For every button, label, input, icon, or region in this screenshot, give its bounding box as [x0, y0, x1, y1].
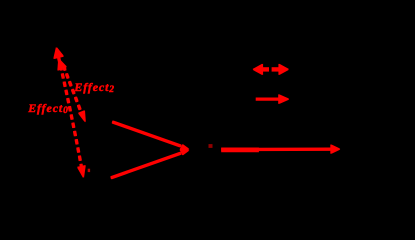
label Effect0	[28, 102, 68, 114]
solid arrow S2 (lower converging arrow)	[111, 150, 189, 178]
solid arrow S1 (upper converging arrow)	[113, 122, 189, 150]
dashed double-headed arrow D1 (Effect2), slight arc	[54, 48, 85, 178]
legend dashed double-headed arrow L1	[253, 64, 288, 74]
legend solid arrow L2	[256, 95, 288, 104]
label Effect2	[74, 81, 114, 93]
dashed double-headed arrow D2 (Effect0), slight arc	[58, 59, 85, 122]
faint speck left of long bottom arrow	[209, 145, 212, 148]
long solid arrow S3	[222, 145, 340, 154]
thick underlay segment of long bottom arrow S3	[222, 148, 259, 152]
small red speck near bottom dashed arrowhead	[88, 169, 89, 171]
